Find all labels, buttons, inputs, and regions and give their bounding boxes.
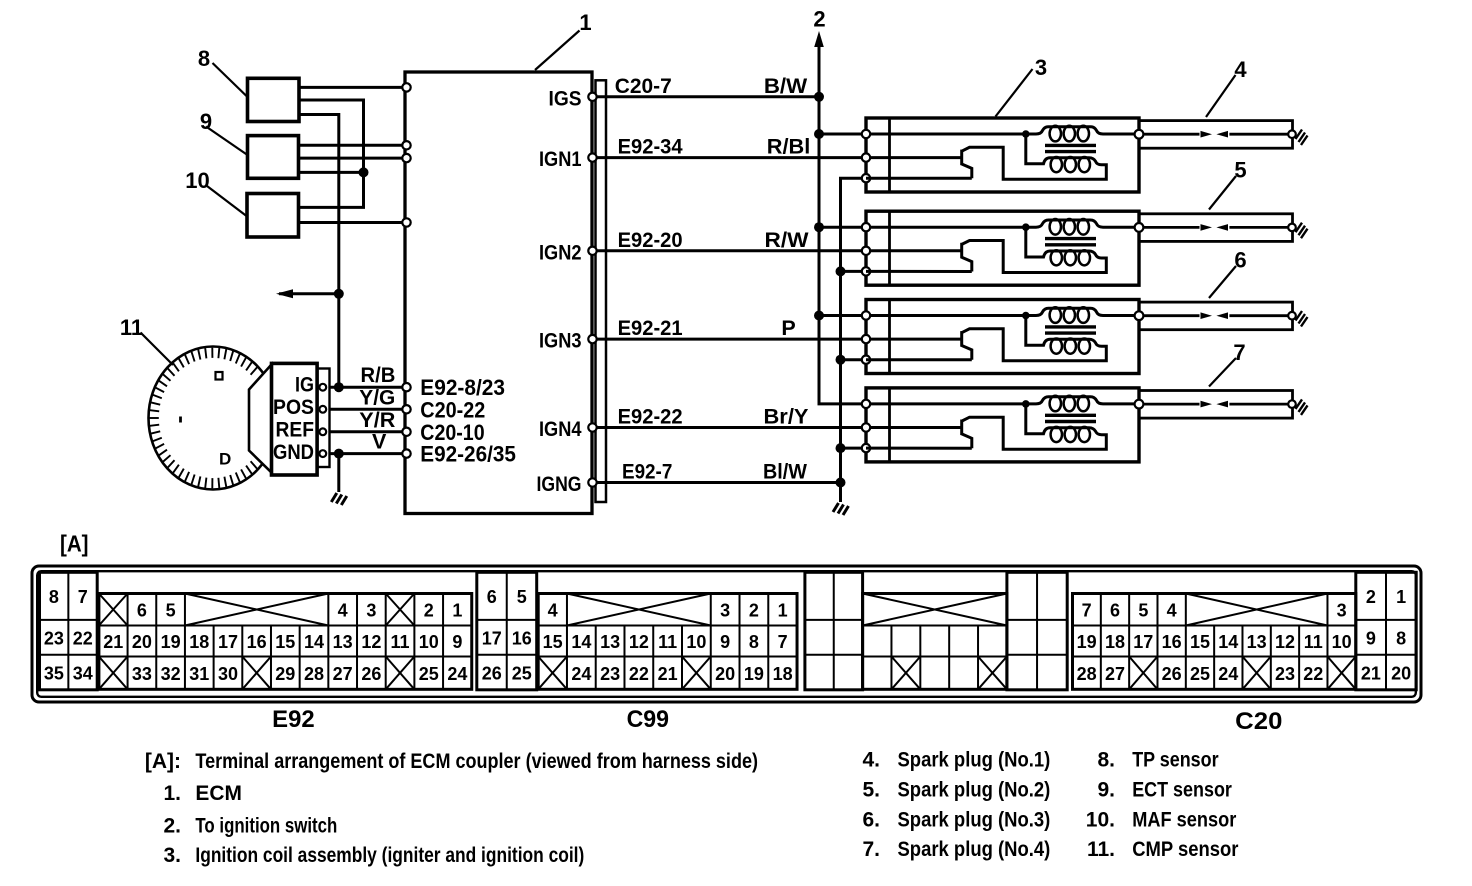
ignition coil assembly No.2 (item 3) bbox=[862, 211, 1139, 285]
svg-text:Spark plug (No.3): Spark plug (No.3) bbox=[898, 809, 1051, 832]
svg-text:29: 29 bbox=[275, 664, 295, 684]
svg-text:10: 10 bbox=[185, 168, 209, 193]
svg-text:4: 4 bbox=[1234, 57, 1247, 82]
ground bus wire bbox=[841, 178, 867, 502]
CMP sensor connector box bbox=[272, 363, 318, 475]
svg-text:R/Bl: R/Bl bbox=[767, 135, 811, 159]
svg-text:E92-20: E92-20 bbox=[618, 228, 683, 252]
svg-text:D: D bbox=[219, 450, 231, 469]
wire B+ branch to coil 2 bbox=[819, 226, 866, 229]
CMP wire Y/G to ECM C20-22 bbox=[330, 408, 403, 411]
svg-text:11: 11 bbox=[1304, 632, 1323, 652]
junction coil3 B+ branch bbox=[814, 311, 824, 321]
svg-text:18: 18 bbox=[1105, 632, 1125, 652]
svg-text:3.: 3. bbox=[163, 844, 181, 867]
svg-text:17: 17 bbox=[1133, 632, 1153, 652]
CMP sensor rotor (item 11) bbox=[149, 347, 278, 490]
junction coil2 ground bbox=[836, 266, 846, 276]
svg-text:2.: 2. bbox=[163, 815, 181, 838]
label 8 leader bbox=[213, 63, 248, 97]
wire to ignition switch (item 2), B+ feed line bbox=[819, 42, 866, 404]
svg-text:17: 17 bbox=[482, 628, 502, 648]
svg-text:IGN4: IGN4 bbox=[539, 418, 582, 441]
wire ECT sensor to common vertical bbox=[299, 171, 364, 174]
svg-text:[A]: [A] bbox=[60, 531, 89, 557]
svg-text:4: 4 bbox=[1167, 601, 1177, 621]
svg-text:21: 21 bbox=[103, 632, 123, 652]
svg-text:IGN3: IGN3 bbox=[539, 330, 582, 353]
CMP pin strip bbox=[317, 369, 329, 468]
ECM box (item 1) bbox=[405, 72, 592, 514]
svg-text:18: 18 bbox=[189, 632, 209, 652]
ignition coil assembly No.1 (item 3) bbox=[862, 118, 1139, 192]
svg-text:6: 6 bbox=[1110, 601, 1120, 621]
label 3 leader bbox=[996, 69, 1033, 117]
svg-text:4: 4 bbox=[548, 601, 558, 621]
svg-text:22: 22 bbox=[73, 628, 93, 648]
svg-text:26: 26 bbox=[482, 663, 502, 683]
svg-text:18: 18 bbox=[773, 664, 793, 684]
ECM pin IGN4 bbox=[588, 423, 596, 431]
svg-text:2: 2 bbox=[424, 601, 434, 621]
svg-text:Ignition coil assembly (ignite: Ignition coil assembly (igniter and igni… bbox=[195, 844, 584, 867]
ECM pin IGN3 bbox=[588, 335, 596, 343]
svg-text:8: 8 bbox=[198, 46, 210, 71]
svg-text:P: P bbox=[781, 316, 795, 340]
svg-text:10: 10 bbox=[1332, 632, 1352, 652]
svg-text:5.: 5. bbox=[862, 779, 880, 802]
svg-text:24: 24 bbox=[571, 664, 591, 684]
svg-text:25: 25 bbox=[512, 663, 532, 683]
wire TP sensor to ECM pin bbox=[299, 86, 403, 89]
svg-text:IGN1: IGN1 bbox=[539, 148, 582, 171]
svg-text:14: 14 bbox=[304, 632, 324, 652]
legend bbox=[145, 749, 1239, 868]
svg-text:5: 5 bbox=[166, 601, 176, 621]
svg-text:Spark plug (No.4): Spark plug (No.4) bbox=[898, 838, 1051, 861]
ECM pin IGN2 bbox=[588, 247, 596, 255]
label 9 leader bbox=[206, 127, 248, 156]
svg-text:Spark plug (No.2): Spark plug (No.2) bbox=[898, 779, 1051, 802]
svg-text:11.: 11. bbox=[1087, 838, 1115, 861]
svg-text:7: 7 bbox=[1082, 601, 1092, 621]
svg-text:13: 13 bbox=[1247, 632, 1267, 652]
svg-text:14: 14 bbox=[1218, 632, 1238, 652]
svg-text:13: 13 bbox=[600, 632, 620, 652]
wire TP sensor to common vertical bbox=[299, 100, 364, 207]
ECM pin IGNG wire (E92-7, Bl/W) bbox=[597, 481, 841, 484]
svg-text:1: 1 bbox=[778, 601, 788, 621]
svg-text:IGS: IGS bbox=[549, 87, 582, 110]
svg-text:REF: REF bbox=[276, 419, 315, 442]
svg-text:Br/Y: Br/Y bbox=[764, 405, 809, 429]
svg-text:27: 27 bbox=[1105, 664, 1125, 684]
svg-text:22: 22 bbox=[1303, 664, 1323, 684]
svg-text:3: 3 bbox=[720, 601, 730, 621]
svg-text:2: 2 bbox=[813, 7, 825, 32]
arrow to other circuit bbox=[279, 292, 339, 295]
label 5 leader bbox=[1209, 176, 1236, 210]
svg-text:C20-7: C20-7 bbox=[615, 74, 672, 98]
svg-text:30: 30 bbox=[218, 664, 238, 684]
ground bbox=[833, 503, 849, 515]
svg-text:Spark plug (No.1): Spark plug (No.1) bbox=[898, 749, 1051, 772]
svg-text:26: 26 bbox=[361, 664, 381, 684]
svg-text:C20-22: C20-22 bbox=[420, 397, 485, 422]
svg-text:IGNG: IGNG bbox=[537, 473, 582, 496]
svg-text:6.: 6. bbox=[862, 809, 880, 832]
junction CMP GND bbox=[334, 449, 344, 459]
svg-text:9: 9 bbox=[1366, 628, 1376, 648]
svg-text:21: 21 bbox=[1361, 663, 1381, 683]
svg-text:16: 16 bbox=[247, 632, 267, 652]
svg-text:2: 2 bbox=[749, 601, 759, 621]
svg-text:33: 33 bbox=[132, 664, 152, 684]
svg-text:5: 5 bbox=[1138, 601, 1148, 621]
svg-text:28: 28 bbox=[1077, 664, 1097, 684]
svg-text:E92-26/35: E92-26/35 bbox=[420, 442, 516, 467]
spark plug cable No.3 (item 6) bbox=[1135, 302, 1308, 330]
wire TP sensor to CMP IG vertical bbox=[299, 115, 339, 388]
svg-text:E92-22: E92-22 bbox=[618, 405, 683, 429]
svg-text:20: 20 bbox=[715, 664, 735, 684]
svg-text:CMP sensor: CMP sensor bbox=[1132, 838, 1238, 861]
svg-text:6: 6 bbox=[1234, 248, 1246, 273]
svg-text:12: 12 bbox=[361, 632, 381, 652]
svg-text:10: 10 bbox=[686, 632, 706, 652]
svg-text:Terminal arrangement of ECM co: Terminal arrangement of ECM coupler (vie… bbox=[195, 750, 758, 773]
junction IG wire bbox=[334, 382, 344, 392]
wire ground branch coil 4 bbox=[841, 447, 867, 450]
svg-text:Y/G: Y/G bbox=[359, 385, 395, 409]
svg-text:1: 1 bbox=[452, 601, 462, 621]
CMP wire Y/R to ECM C20-10 bbox=[330, 430, 403, 433]
svg-text:IGN2: IGN2 bbox=[539, 241, 582, 264]
ECM pin IGS bbox=[588, 93, 596, 101]
svg-text:GND: GND bbox=[273, 441, 314, 464]
junction coil4 ground bbox=[836, 443, 846, 453]
label 11 leader bbox=[141, 333, 174, 366]
connector C20 pin block bbox=[1073, 572, 1417, 690]
svg-text:34: 34 bbox=[73, 663, 93, 683]
svg-text:32: 32 bbox=[161, 664, 181, 684]
svg-text:15: 15 bbox=[543, 632, 563, 652]
svg-text:B/W: B/W bbox=[764, 74, 808, 98]
svg-text:9: 9 bbox=[452, 632, 462, 652]
svg-text:8: 8 bbox=[749, 632, 759, 652]
spark plug cable No.2 (item 5) bbox=[1135, 214, 1308, 242]
svg-text:ECT sensor: ECT sensor bbox=[1132, 779, 1232, 802]
svg-text:3: 3 bbox=[366, 601, 376, 621]
svg-text:E92: E92 bbox=[272, 706, 315, 733]
wire MAF sensor to ECM pin bbox=[299, 221, 403, 224]
junction common vertical / ECT bbox=[359, 167, 369, 177]
svg-text:5: 5 bbox=[517, 587, 527, 607]
svg-text:23: 23 bbox=[600, 664, 620, 684]
svg-text:16: 16 bbox=[1162, 632, 1182, 652]
svg-text:14: 14 bbox=[571, 632, 591, 652]
connector E92 pin block bbox=[40, 572, 472, 690]
svg-text:V: V bbox=[372, 430, 387, 454]
svg-text:12: 12 bbox=[629, 632, 649, 652]
svg-text:19: 19 bbox=[161, 632, 181, 652]
ECM pin IGN3 wire (E92-21, P) bbox=[597, 338, 866, 341]
svg-text:8: 8 bbox=[49, 587, 59, 607]
junction B/W bbox=[814, 92, 824, 102]
svg-text:11: 11 bbox=[658, 632, 677, 652]
svg-text:9.: 9. bbox=[1097, 779, 1115, 802]
svg-text:TP sensor: TP sensor bbox=[1132, 749, 1218, 772]
svg-text:25: 25 bbox=[419, 664, 439, 684]
svg-text:4: 4 bbox=[338, 601, 348, 621]
svg-text:E92-34: E92-34 bbox=[618, 135, 683, 159]
svg-text:E92-21: E92-21 bbox=[618, 316, 683, 340]
label 4 leader bbox=[1206, 75, 1236, 117]
svg-text:9: 9 bbox=[720, 632, 730, 652]
svg-text:MAF sensor: MAF sensor bbox=[1132, 809, 1236, 832]
ECM pin IGNG bbox=[588, 478, 596, 486]
wire B+ branch to coil 3 bbox=[819, 314, 866, 317]
svg-text:10: 10 bbox=[419, 632, 439, 652]
ignition coil assembly No.3 (item 3) bbox=[862, 300, 1139, 374]
svg-text:28: 28 bbox=[304, 664, 324, 684]
svg-text:6: 6 bbox=[137, 601, 147, 621]
svg-text:9: 9 bbox=[200, 109, 212, 134]
ignition coil assembly No.4 (item 3) bbox=[862, 388, 1139, 462]
ECT sensor box (item 9) bbox=[248, 136, 299, 179]
svg-text:19: 19 bbox=[1077, 632, 1097, 652]
svg-text:7.: 7. bbox=[862, 838, 880, 861]
svg-text:R/B: R/B bbox=[361, 363, 396, 387]
svg-text:ECM: ECM bbox=[195, 782, 242, 805]
ECM pin IGS wire (C20-7, B/W) bbox=[597, 95, 819, 98]
label 10 leader bbox=[207, 186, 247, 216]
svg-text:To ignition switch: To ignition switch bbox=[195, 815, 337, 838]
svg-text:7: 7 bbox=[1233, 340, 1245, 365]
unlabelled middle connector block bbox=[805, 572, 1067, 690]
svg-text:17: 17 bbox=[218, 632, 238, 652]
ECM connector strip bbox=[596, 80, 607, 502]
svg-text:7: 7 bbox=[778, 632, 788, 652]
ECM pin IGN4 wire (E92-22, Br/Y) bbox=[597, 426, 866, 429]
svg-text:4.: 4. bbox=[862, 749, 880, 772]
svg-text:1: 1 bbox=[579, 10, 591, 35]
junction IGNG / ground bus bbox=[836, 478, 846, 488]
wire ECT sensor to ECM pin 2 bbox=[299, 157, 403, 160]
svg-text:35: 35 bbox=[44, 663, 64, 683]
svg-text:24: 24 bbox=[1218, 664, 1238, 684]
svg-text:12: 12 bbox=[1275, 632, 1295, 652]
svg-text:22: 22 bbox=[629, 664, 649, 684]
svg-text:E92-7: E92-7 bbox=[622, 460, 672, 484]
junction coil3 ground bbox=[836, 355, 846, 365]
svg-text:15: 15 bbox=[1190, 632, 1210, 652]
svg-text:11: 11 bbox=[391, 632, 410, 652]
svg-text:3: 3 bbox=[1337, 601, 1347, 621]
ECM left pins bbox=[402, 83, 410, 91]
svg-text:21: 21 bbox=[658, 664, 678, 684]
connector C99 pin block bbox=[477, 572, 797, 690]
svg-text:24: 24 bbox=[447, 664, 467, 684]
svg-text:8.: 8. bbox=[1097, 749, 1115, 772]
svg-text:C99: C99 bbox=[627, 706, 669, 733]
label 1 leader bbox=[535, 31, 580, 71]
TP sensor box (item 8) bbox=[248, 78, 300, 121]
svg-text:27: 27 bbox=[333, 664, 353, 684]
label 7 leader bbox=[1209, 358, 1236, 387]
svg-text:23: 23 bbox=[1275, 664, 1295, 684]
wire B+ branch to coil 1 bbox=[819, 133, 866, 136]
wire ground branch coil 2 bbox=[841, 270, 867, 273]
svg-text:31: 31 bbox=[189, 664, 209, 684]
spark plug cable No.1 (item 4) bbox=[1135, 121, 1308, 149]
svg-text:IG: IG bbox=[295, 374, 314, 397]
ECM pin IGN1 bbox=[588, 153, 596, 161]
svg-text:23: 23 bbox=[44, 628, 64, 648]
svg-text:6: 6 bbox=[487, 587, 497, 607]
ECM pin IGN2 wire (E92-20, R/W) bbox=[597, 249, 866, 252]
svg-text:20: 20 bbox=[132, 632, 152, 652]
spark plug cable No.4 (item 7) bbox=[1135, 391, 1308, 419]
CMP ground drop wire bbox=[337, 454, 340, 492]
svg-text:C20: C20 bbox=[1235, 708, 1282, 735]
svg-text:Y/R: Y/R bbox=[359, 408, 395, 432]
svg-text:13: 13 bbox=[333, 632, 353, 652]
CMP wire V to ECM E92-26/35 bbox=[330, 452, 403, 455]
svg-text:5: 5 bbox=[1234, 158, 1246, 183]
CMP sensor connector wedge bbox=[249, 365, 272, 473]
svg-text:3: 3 bbox=[1035, 55, 1047, 80]
svg-text:7: 7 bbox=[78, 587, 88, 607]
svg-text:POS: POS bbox=[273, 396, 314, 419]
svg-text:16: 16 bbox=[512, 628, 532, 648]
connector chart outer frame bbox=[32, 566, 1421, 702]
wire ECT sensor to ECM pin 1 bbox=[299, 144, 403, 147]
wire ground branch coil 3 bbox=[841, 358, 867, 361]
junction arrow / IG vertical bbox=[334, 289, 344, 299]
svg-text:2: 2 bbox=[1366, 587, 1376, 607]
CMP wire R/B to ECM E92-8/23 bbox=[330, 386, 403, 389]
MAF sensor box (item 10) bbox=[247, 194, 299, 238]
svg-text:R/W: R/W bbox=[765, 228, 810, 252]
svg-text:10.: 10. bbox=[1086, 809, 1115, 832]
svg-text:11: 11 bbox=[120, 315, 143, 340]
junction coil1 B+ branch bbox=[814, 129, 824, 139]
svg-text:20: 20 bbox=[1391, 663, 1411, 683]
label 6 leader bbox=[1209, 266, 1236, 298]
svg-text:26: 26 bbox=[1162, 664, 1182, 684]
svg-text:25: 25 bbox=[1190, 664, 1210, 684]
svg-text:Bl/W: Bl/W bbox=[763, 460, 808, 484]
ground bbox=[331, 493, 347, 505]
ECM pin IGN1 wire (E92-34, R/Bl) bbox=[597, 156, 866, 159]
svg-text:8: 8 bbox=[1396, 628, 1406, 648]
svg-text:[A]:: [A]: bbox=[145, 750, 181, 773]
junction coil2 B+ branch bbox=[814, 222, 824, 232]
svg-text:1: 1 bbox=[1396, 587, 1406, 607]
svg-text:15: 15 bbox=[275, 632, 295, 652]
svg-text:19: 19 bbox=[744, 664, 764, 684]
svg-text:1.: 1. bbox=[163, 782, 181, 805]
